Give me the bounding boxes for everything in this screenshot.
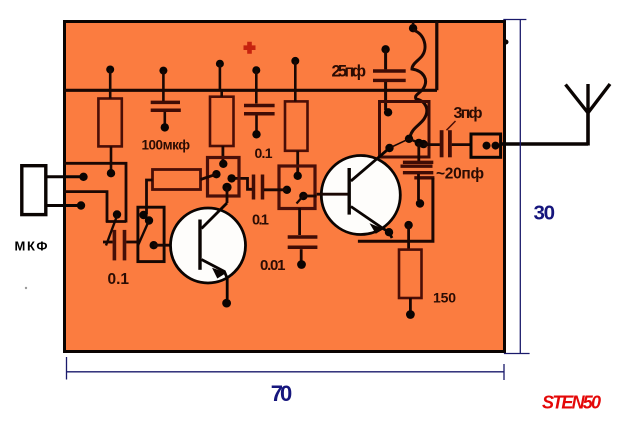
svg-text:~20пф: ~20пф — [436, 166, 484, 183]
board outline (PCB) — [65, 22, 505, 352]
svg-text:150: 150 — [433, 290, 456, 306]
transistor T2 — [317, 148, 401, 238]
label 150 — [433, 290, 456, 306]
capacitor 100мкф — [151, 90, 181, 132]
capacitor 0.01 — [288, 237, 318, 269]
svg-text:100мкф: 100мкф — [142, 138, 191, 153]
resistor R (horizontal) — [147, 170, 217, 215]
label 30 — [534, 202, 556, 225]
label МКФ — [15, 239, 48, 254]
svg-text:0.1: 0.1 — [252, 213, 269, 229]
wire from top border to rail — [435, 21, 438, 90]
svg-text:STEN50: STEN50 — [542, 393, 601, 413]
output connector box — [471, 134, 501, 157]
label 20пф with tilde — [436, 166, 484, 183]
emitter junction dot T2 — [385, 228, 393, 236]
svg-text:30: 30 — [534, 202, 556, 225]
node via dot 4 — [252, 66, 260, 90]
label 0.01 — [260, 257, 286, 274]
node dot output — [419, 140, 427, 148]
svg-text:25пф: 25пф — [332, 63, 367, 81]
microphone connector МКФ — [22, 166, 88, 215]
node dot 20пф top — [415, 139, 423, 147]
antenna — [566, 84, 611, 146]
plus supply marker — [244, 42, 256, 54]
mic input wire lower — [64, 192, 126, 223]
resistor 150 — [399, 250, 422, 319]
wire to 3пф — [424, 143, 440, 146]
wire 20пф bottom to emitter rail — [358, 178, 433, 242]
svg-text:70: 70 — [271, 381, 293, 406]
trimmer box (second) — [138, 207, 199, 261]
label 0.1 (trimmer) — [108, 271, 130, 288]
node via dot 1 — [106, 66, 114, 91]
trimmer capacitor 0.1 (left) — [103, 210, 138, 260]
svg-text:3пф: 3пф — [454, 105, 483, 122]
dimension line horizontal (70) — [67, 357, 505, 380]
collector node dot T2 — [385, 139, 409, 152]
capacitor 0.1 coupling — [232, 175, 287, 200]
resistor R (left bias) — [98, 90, 121, 170]
oscillator section box — [380, 102, 430, 158]
svg-text:0.1: 0.1 — [108, 271, 130, 288]
junction dot below resistor — [107, 169, 115, 177]
junction box A — [208, 158, 240, 204]
small dot on right board edge — [504, 40, 509, 45]
inductor coil L1 — [409, 21, 427, 137]
scan speck — [25, 287, 27, 289]
capacitor 0.1 (top middle) — [244, 90, 275, 139]
node dot above 150 resistor — [404, 221, 412, 250]
node via dot 5 — [291, 57, 299, 90]
resistor R (third) — [285, 90, 308, 176]
svg-text:МКФ: МКФ — [15, 239, 48, 254]
signature STEN50 — [542, 393, 601, 413]
label 0.1 (coupling cap) — [252, 213, 269, 229]
label 70 — [271, 381, 293, 406]
mic input wire upper — [64, 163, 126, 222]
driver junction box B — [279, 166, 317, 235]
node via dot 2 — [159, 67, 167, 90]
dimension line vertical (30) — [503, 20, 529, 354]
svg-text:0.01: 0.01 — [260, 257, 286, 274]
resistor R (second bias) — [210, 90, 234, 164]
label 25пф — [332, 63, 367, 81]
capacitor 25пф — [373, 45, 406, 110]
label 100мкф — [142, 138, 191, 153]
antenna feed wire — [501, 142, 588, 146]
label 3пф with callout — [447, 105, 483, 130]
transistor T1 — [171, 203, 246, 308]
node dot inside box top — [384, 108, 392, 116]
power rail wire — [64, 89, 437, 92]
node dot coil bottom — [405, 135, 413, 143]
svg-text:0.1: 0.1 — [255, 145, 273, 161]
capacitor 3пф — [442, 130, 471, 157]
wire coil bottom to cap node — [409, 139, 419, 143]
capacitor 20пф (stacked pair) — [401, 143, 435, 208]
label 0.1 top — [255, 145, 273, 161]
node via dot 3 — [216, 60, 224, 90]
